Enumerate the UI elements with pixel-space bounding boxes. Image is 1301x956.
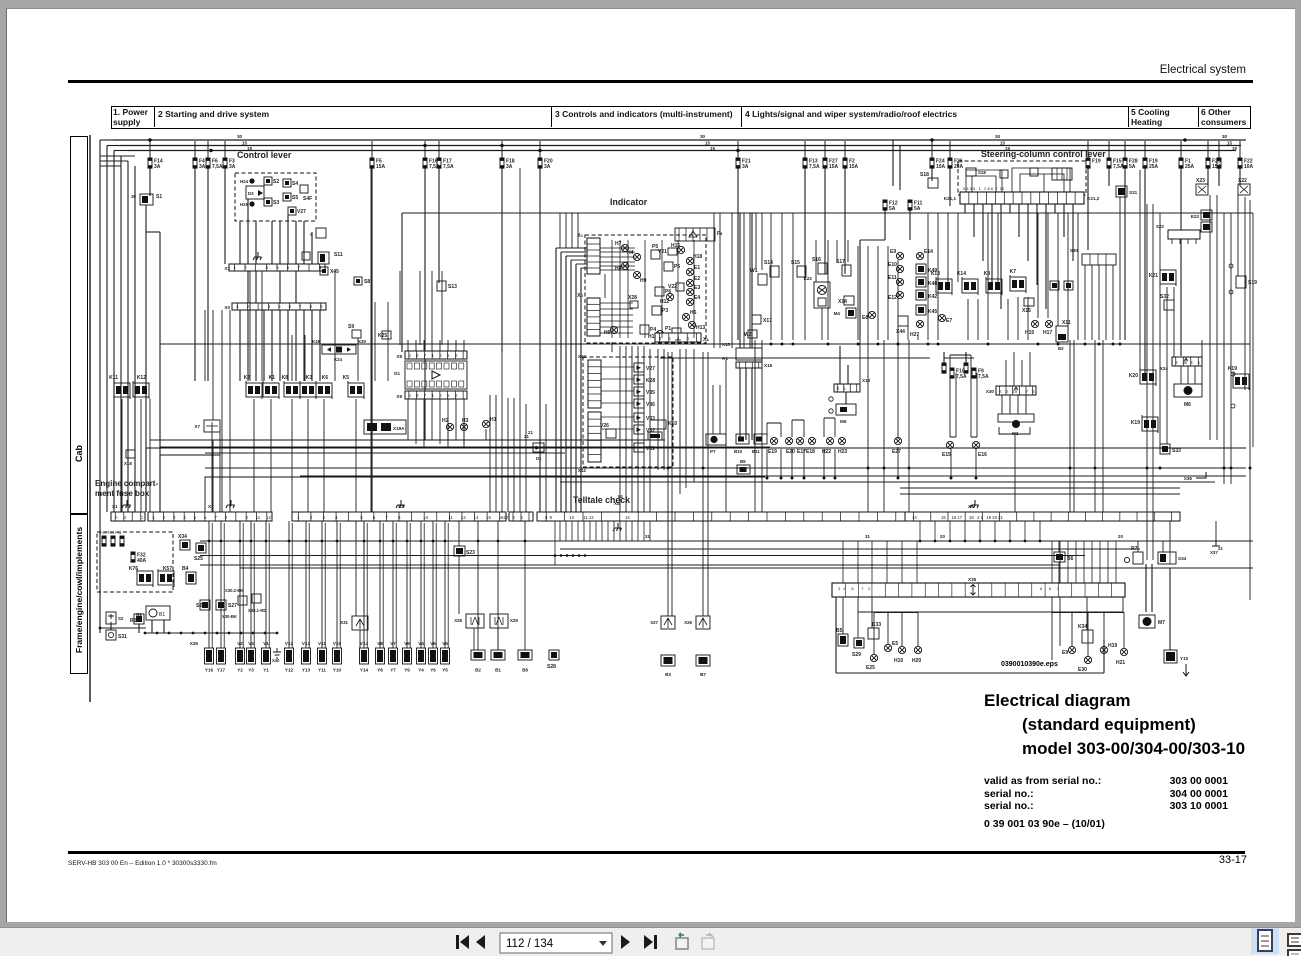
svg-text:B11: B11 [752,449,760,454]
lamp E8 [868,311,875,318]
wire fuse drop x1219 [1218,168,1220,186]
wire v38 [761,213,763,270]
switch S2 in lever [264,177,272,185]
svg-text:E9: E9 [890,249,896,255]
svg-text:M7: M7 [1158,620,1165,626]
wire block v2 [871,597,873,628]
svg-text:X1: X1 [112,504,118,509]
lamp E27 [894,437,901,444]
X30 arrow [1014,387,1018,393]
wire X35 feed r x1092 [1091,541,1093,583]
relay K19b [1142,415,1158,433]
wire actuator drop2 Y13 [308,523,310,648]
wire block v1 [857,597,859,638]
switch W1 [758,274,767,285]
wire v65 [1027,297,1029,340]
svg-text:Control lever: Control lever [237,150,292,160]
svg-text:S15: S15 [791,260,800,266]
steering column enclosure [958,161,1086,195]
junction bottom row 4 [192,632,195,635]
wire v46 [836,240,838,262]
wire X8 feed 3 [431,340,433,351]
wire rail 5555 [200,555,1085,557]
relay K1 [263,381,279,399]
lamp E4 [686,298,693,305]
fuse F27 15A [823,158,828,169]
svg-text:X39: X39 [358,339,366,344]
lamp E30 [1084,656,1091,663]
wire strip drop x272 [271,310,273,381]
diode glyph V32 [637,428,642,432]
svg-text:H19: H19 [1108,643,1117,649]
wire v146 [441,271,443,345]
wire B6 feed [1058,541,1060,552]
wire v145 [431,271,433,345]
svg-text:7,5A: 7,5A [978,374,989,380]
junction bus19 a [209,149,212,152]
svg-text:10A: 10A [936,164,946,170]
wire v149 [121,399,123,512]
connector X8 [405,351,467,359]
wire v116 [1252,213,1254,447]
wire fuse feed [207,141,209,158]
M5 screw b [829,409,833,413]
wire block lamp rail [874,612,918,614]
wire block right2 [1122,597,1124,612]
svg-text:10: 10 [423,515,428,520]
wire indicator internal x694 [693,240,695,338]
P8 triangle [689,231,697,237]
wire fuse feed [1180,141,1182,158]
wire actuator drop2 Y10 [339,523,341,648]
pdf toolbar [0,927,1301,956]
wire actuator drop2 Y4 [423,523,425,648]
svg-text:K33: K33 [872,622,881,628]
connector X9 [405,391,467,399]
junction bottom row 0 [144,632,147,635]
wire bundle mid bend 4 [576,263,587,265]
wire X9 drop 3 [431,399,433,440]
svg-text:X36: X36 [1184,476,1193,481]
lamp H8 [621,262,628,269]
wire K21 drop 6 [1018,204,1020,237]
wire X8 feed 6 [455,340,457,351]
svg-text:K20: K20 [1129,373,1138,379]
wire block v10 [1087,612,1089,656]
lamp E7 [938,314,945,321]
wire strip drop x296 [295,310,297,381]
lamp H19 [1100,646,1107,653]
wire v151 [253,399,255,512]
relay K19 right [1233,372,1249,390]
S2 glyph [108,614,114,619]
ground X2 [226,500,235,508]
wire v32 [823,449,825,478]
wire indicator internal x678 [677,240,679,338]
svg-text:K18: K18 [312,339,321,344]
svg-text:X18: X18 [124,461,132,466]
wire K21 drop 4 [1000,204,1002,309]
svg-text:A1: A1 [722,356,728,361]
connector X34 [180,540,190,550]
junction r x980 [979,540,982,543]
wire v127 [743,213,745,348]
fuse F3 3A [223,158,228,169]
junction actuator Y2 [239,540,242,543]
connector X28b [466,614,484,628]
svg-text:X16: X16 [764,363,773,368]
svg-text:E8: E8 [862,315,868,321]
X28b inner [471,617,479,625]
junction rail x1224 [1223,467,1226,470]
wire v133 [239,310,241,381]
wire quartet feedR [965,352,967,363]
wire v159 [485,429,487,440]
wire bar drop x602 [601,521,603,541]
fuse F30 50A [111,536,116,547]
cluster K18 X39 [322,345,356,354]
fuse F22 10A [1238,158,1243,169]
actuator Y14 [360,648,369,664]
wire bar drop r x1010 [1009,521,1011,541]
switch lever c [1030,168,1038,176]
svg-text:S34: S34 [1178,556,1187,561]
wire fuse feed [844,141,846,158]
wire lever out1 [239,221,241,264]
junction left [99,627,102,630]
switch S27 [216,600,226,610]
wire v148 [159,399,161,512]
wire v29 [780,449,782,478]
wire v0 [619,346,621,512]
wire v4 [643,346,645,512]
svg-text:P4: P4 [650,327,656,333]
svg-text:X34: X34 [178,534,187,540]
wire v59 [967,299,969,340]
wire v111 [1223,213,1225,484]
connector X28i [630,301,638,308]
relay K34 [1082,630,1093,643]
gauge P4 [640,325,649,334]
wire v36 [975,449,977,478]
svg-text:K76: K76 [129,566,138,572]
svg-text:B5: B5 [836,628,843,634]
svg-text:X30: X30 [986,389,995,394]
connector X37 stub [1212,540,1220,546]
switch lever b [1000,170,1008,178]
junction rail340 x782 [781,343,784,346]
wire fuse feed [824,141,826,158]
svg-text:Y6: Y6 [430,668,436,673]
actuator Y1 [262,648,271,664]
svg-text:X14: X14 [838,299,847,305]
wire left trunk 2 [113,151,115,513]
wire indicator internal x628 [627,240,629,338]
fuse F6 7,5A [206,158,211,169]
diode glyph D3 [258,190,263,196]
valve V26 [606,429,616,438]
wire bus 15 [120,145,1241,147]
wire left bend3 [100,165,121,167]
svg-text:F29 F30 F31: F29 F30 F31 [100,531,122,535]
wire v42 [804,274,806,340]
P7 circle [710,436,717,443]
svg-text:Y11: Y11 [318,668,326,673]
svg-text:X22: X22 [1238,178,1247,184]
svg-text:M5: M5 [840,419,847,424]
junction bottom row 1 [156,632,159,635]
svg-text:30: 30 [131,194,136,199]
switch S1 [140,194,153,205]
wire K21 drop 8 [1036,204,1038,285]
W3 fill [1052,283,1057,288]
junction actuator Y13 [305,540,308,543]
wire fuse drop x1181 [1180,168,1182,356]
X34 fill [182,542,188,548]
S3 fill [266,200,270,204]
wire v150 [140,399,142,512]
wire v129 [204,310,206,381]
connector K21 bar [960,192,1084,204]
lamp E3 [686,288,693,295]
relay K49 [916,264,926,274]
wire fuse pair bend b [950,355,977,437]
wire X35 feed x917 [916,541,918,583]
fuse F5 15A [370,158,375,169]
wire left stub1 [100,139,113,141]
svg-text:S4F: S4F [303,196,312,202]
ground on X3 strip [253,252,262,260]
wire bar drop r x950 [949,521,951,541]
wire actuator drop Y3 [250,521,252,648]
wire actuator drop Y4 [420,521,422,648]
svg-text:X35: X35 [968,577,977,582]
junction bus30 [148,138,151,141]
unit A1 X15 [736,348,762,360]
junction r x1010 [1009,540,1012,543]
lamp H11 [656,330,663,337]
wire bar drop x596 [595,521,597,541]
wire bar drop x614 [613,521,615,541]
wire v115 [1249,200,1251,600]
wire actuator drop Y17 [220,521,222,648]
sensor B3 [661,655,675,666]
connector X36 bracket [1196,472,1206,478]
svg-text:E9: E9 [1062,650,1068,656]
switch S21 [1116,186,1127,197]
wire F11 drop [909,210,911,240]
X19A fills [367,423,377,431]
wire v124 [713,213,715,348]
wire M7 drop [1145,564,1147,612]
B11 fill [756,437,762,442]
valve V36 [634,399,644,408]
svg-text:X8: X8 [396,354,402,359]
wire block v13 [1086,597,1088,630]
svg-text:M6: M6 [1184,402,1191,408]
wire K21 drop 3 [991,204,993,285]
wire block v6 [917,612,919,646]
wire actuator drop2 Y14 [366,523,368,648]
svg-text:20: 20 [1118,534,1123,539]
wire F12 drop2 [859,240,861,340]
wire actuator drop2 Y1 [268,523,270,648]
wire v117 [559,213,561,248]
wire X9 drop 0 [407,399,409,440]
left side label boxes [70,136,88,514]
wire bundle mid 1 [560,252,562,512]
svg-text:Steering-column control lever: Steering-column control lever [981,149,1106,159]
junction actuator Y17 [220,540,223,543]
wire lever out7 [295,221,297,303]
wire bar drop r x980 [979,521,981,541]
wire S34 feeds b [1169,521,1171,552]
connector X19 [834,384,860,392]
S21 fill [1118,188,1125,195]
junction sensor B2 [477,540,480,543]
wire X8 feed 5 [447,340,449,351]
wire bar drop r x965 [964,521,966,541]
wire bar drop x584 [583,521,585,541]
wire actuator drop2 Y17 [223,523,225,648]
svg-text:Y13: Y13 [302,668,311,673]
svg-text:3A: 3A [544,164,551,170]
wire rail 494 [900,493,1180,495]
X26 glyph [699,618,707,628]
svg-text:X12: X12 [578,354,587,359]
svg-text:K21,1: K21,1 [944,196,957,201]
wire v26 [823,418,825,437]
wire batt v4 [138,624,140,633]
B1c fill [1066,283,1071,288]
wire X12 to valve y403 [601,402,634,404]
actuator Y8 [376,648,385,664]
wire strip drop x256 [255,310,257,381]
sensor B1 [491,650,505,660]
wire rail 213 [402,212,1253,214]
svg-text:Y17: Y17 [217,668,226,673]
wire X35 feed r x1076 [1075,541,1077,583]
svg-text:B10: B10 [734,449,743,454]
lamp E5 [884,644,891,651]
diode glyph V36 [637,402,642,406]
wire quartet feedL [943,352,945,363]
svg-text:P3: P3 [662,308,668,314]
wire v24 [791,420,793,437]
wire v89 [1094,340,1096,512]
wire A1 feed2 [751,213,753,348]
wire v6 [657,349,659,470]
wire S1 branch drop [159,232,161,512]
ground X3 [396,500,405,508]
svg-text:K21,2: K21,2 [1087,196,1100,201]
motor M2 body [998,414,1034,428]
lamp H2 [446,423,453,430]
svg-text:P5: P5 [674,264,680,270]
svg-text:V27: V27 [297,209,306,215]
junction rail x909 [908,467,911,470]
wire rail 541 [200,540,1253,542]
wire lever out5 [279,221,281,303]
wire v14 [693,349,695,482]
relay K33 [868,628,879,639]
wire rail 468 [205,467,1246,469]
wire v79 [883,340,885,512]
wire X12 to valve y447 [601,446,634,448]
junction bus19 b [538,149,541,152]
wire v19 [719,385,721,434]
wire actuator drop2 Y9 [409,523,411,648]
svg-text:S16: S16 [812,257,821,263]
wire bundle mid bend 3 [571,259,587,261]
wire v108 [1201,340,1203,384]
wire actuator drop2 Y6 [435,523,437,648]
svg-text:S11: S11 [334,252,343,258]
svg-text:K45: K45 [928,309,937,315]
svg-text:X31: X31 [340,620,348,625]
junction actuator Y5 [444,540,447,543]
wire S1 branch [146,231,160,233]
wire bar drop x632 [631,521,633,541]
wire v37 [755,213,757,270]
switch S29 [854,638,864,648]
fuse F14 3A [148,158,153,169]
X45 fill [322,269,326,273]
wire block v4 [887,612,889,644]
svg-text:12: 12 [266,515,271,520]
svg-text:Y16: Y16 [205,668,214,673]
S30 ticks [1090,254,1106,265]
svg-text:B1: B1 [495,668,501,673]
connector Xc strip [587,238,600,274]
wire v166 [525,404,527,512]
connector X30 [996,386,1036,395]
wire v114 [1244,197,1246,390]
fuse F25 15A [1206,158,1211,169]
wire v71 [1084,265,1086,340]
svg-text:E4: E4 [694,295,700,301]
indicator enclosure [585,235,706,343]
svg-text:5A: 5A [914,206,921,212]
wire actuator drop Y12 [288,521,290,648]
wire v139 [334,271,336,381]
wire X35 feed r x1100 [1099,541,1101,583]
actuator Y3 [247,648,256,664]
wire v44 [821,308,823,340]
svg-text:Y3: Y3 [248,668,254,673]
svg-text:8 6 7: 8 6 7 [1040,586,1060,591]
fuse F1 25A [1179,158,1184,169]
svg-text:12: 12 [461,515,466,520]
wire v67 [1047,213,1049,318]
svg-text:25A: 25A [1185,164,1195,170]
wire actuator drop Y14 [363,521,365,648]
wire X35 feed r x1068 [1067,541,1069,583]
lamp H6 [682,313,689,320]
relay K11 [114,381,130,399]
junction rail340 x988 [987,343,990,346]
wire bundle mid 2 [565,256,567,512]
B6 fill [1056,554,1063,560]
fuse F20 3A [538,158,543,169]
S8 fill [356,279,360,283]
actuator Y4 [417,648,426,664]
svg-text:H24: H24 [240,179,249,184]
wire v35 [950,449,952,478]
wire bar drop x644 [643,521,645,541]
junction rail340 x1038 [1037,343,1040,346]
diode D1 small [533,443,544,452]
